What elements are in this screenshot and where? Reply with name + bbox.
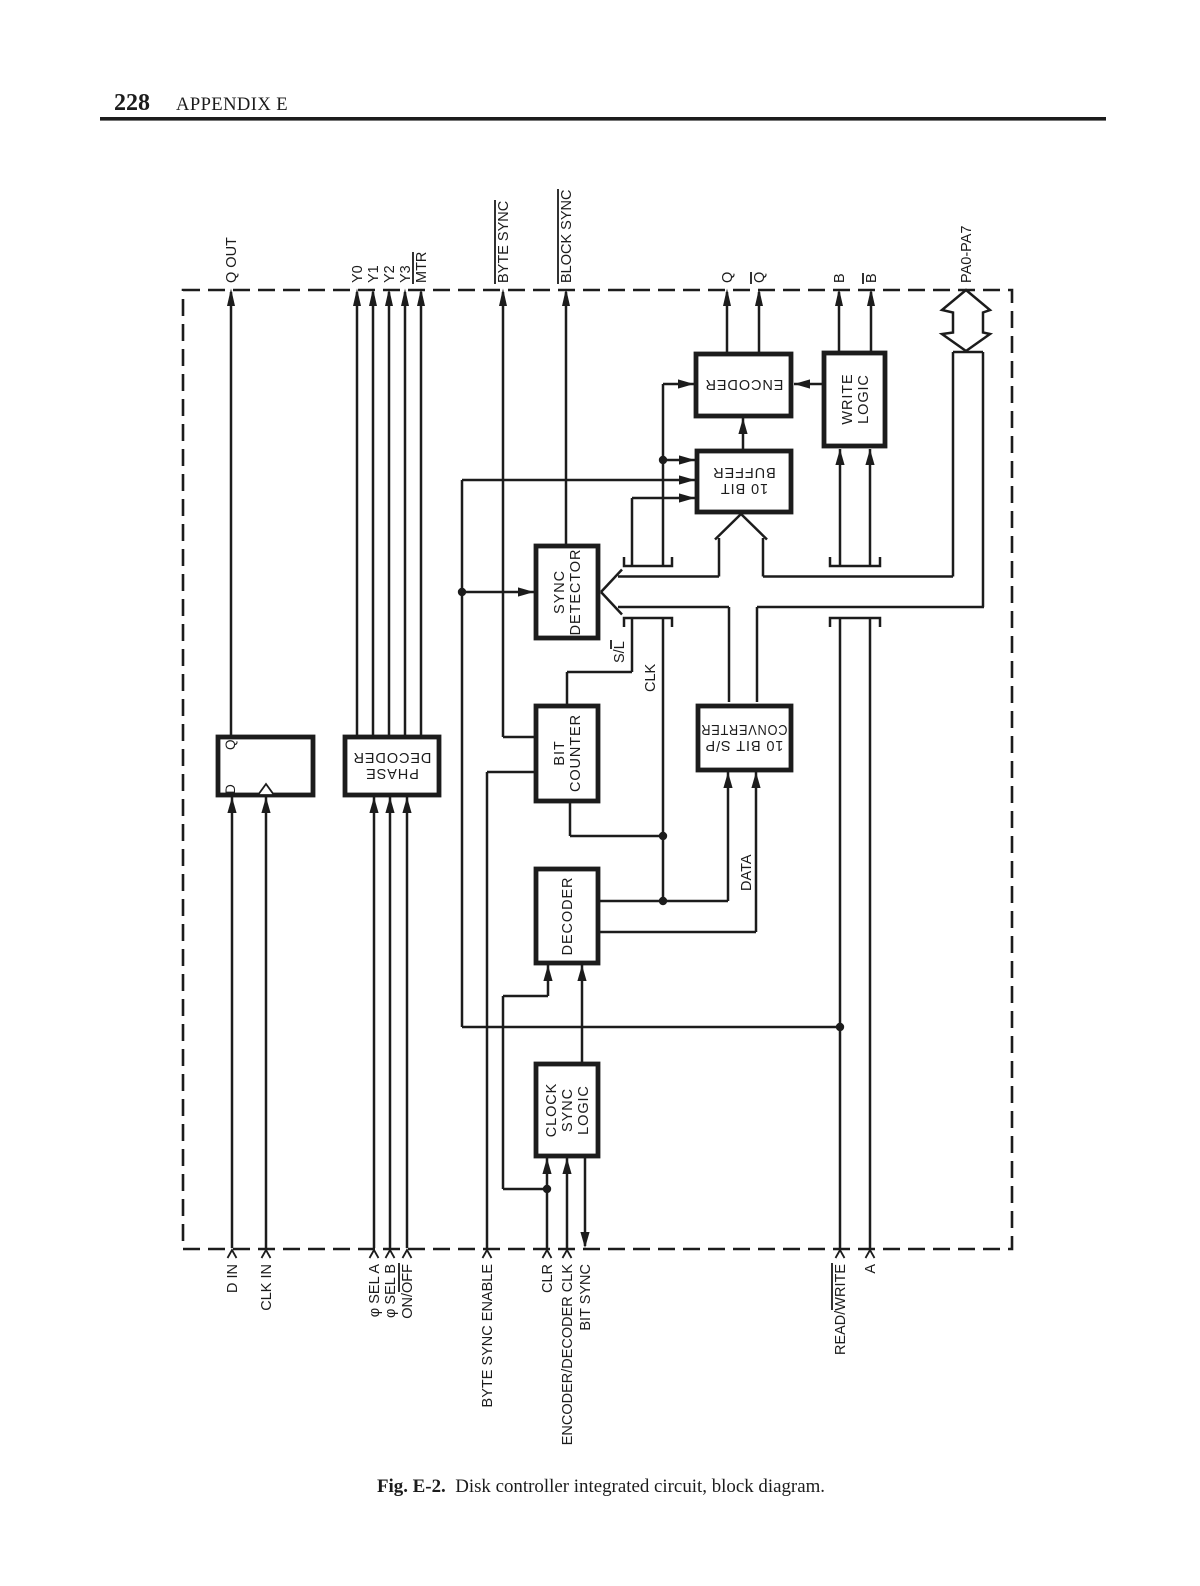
svg-text:PHASE: PHASE [365, 765, 419, 781]
svg-text:Q: Q [720, 272, 736, 283]
svg-text:φ SEL A: φ SEL A [367, 1264, 383, 1318]
svg-text:DECODER: DECODER [353, 749, 432, 765]
svg-text:DECODER: DECODER [560, 877, 576, 956]
svg-text:PA0-PA7: PA0-PA7 [959, 226, 975, 284]
svg-text:BUFFER: BUFFER [712, 464, 775, 480]
svg-text:MTR: MTR [414, 252, 430, 283]
svg-text:D IN: D IN [225, 1264, 241, 1293]
svg-text:CLOCK: CLOCK [544, 1083, 560, 1137]
svg-text:10 BIT S/P: 10 BIT S/P [705, 737, 784, 753]
svg-text:CLK: CLK [643, 663, 659, 692]
svg-text:LOGIC: LOGIC [856, 374, 872, 424]
svg-text:COUNTER: COUNTER [568, 714, 584, 792]
svg-text:B: B [864, 273, 880, 283]
svg-text:SYNC: SYNC [560, 1088, 576, 1132]
svg-text:Q: Q [752, 272, 768, 283]
svg-text:Fig. E-2. Disk controller inte: Fig. E-2. Disk controller integrated cir… [377, 1476, 825, 1497]
svg-text:DETECTOR: DETECTOR [568, 549, 584, 636]
svg-text:APPENDIX E: APPENDIX E [176, 94, 288, 115]
svg-text:228: 228 [114, 90, 150, 116]
svg-text:10 BIT: 10 BIT [720, 480, 768, 496]
svg-text:B: B [832, 273, 848, 283]
svg-text:BYTE SYNC ENABLE: BYTE SYNC ENABLE [480, 1264, 496, 1408]
svg-text:Y3: Y3 [398, 265, 414, 283]
svg-text:ENCODER: ENCODER [705, 376, 784, 392]
svg-text:Y1: Y1 [366, 265, 382, 283]
svg-text:CLK IN: CLK IN [259, 1264, 275, 1311]
svg-text:WRITE: WRITE [840, 373, 856, 424]
svg-text:ON/OFF: ON/OFF [400, 1264, 416, 1319]
svg-text:D: D [223, 784, 238, 794]
svg-text:SYNC: SYNC [552, 570, 568, 614]
svg-text:READ/WRITE: READ/WRITE [833, 1264, 849, 1355]
svg-text:A: A [863, 1264, 879, 1274]
svg-text:Y0: Y0 [350, 265, 366, 283]
svg-text:DATA: DATA [739, 854, 755, 891]
svg-text:Q: Q [223, 739, 238, 750]
svg-text:BIT SYNC: BIT SYNC [578, 1264, 594, 1331]
svg-text:CONVERTER: CONVERTER [701, 721, 788, 737]
svg-text:LOGIC: LOGIC [576, 1085, 592, 1135]
svg-text:BIT: BIT [552, 740, 568, 765]
svg-text:Q OUT: Q OUT [224, 237, 240, 283]
svg-text:CLR: CLR [540, 1264, 556, 1293]
svg-text:ENCODER/DECODER CLK: ENCODER/DECODER CLK [560, 1264, 576, 1446]
svg-text:BYTE SYNC: BYTE SYNC [496, 201, 512, 283]
svg-text:Y2: Y2 [382, 265, 398, 283]
svg-text:S/L: S/L [612, 641, 628, 663]
svg-text:BLOCK SYNC: BLOCK SYNC [559, 190, 575, 283]
svg-text:φ SEL B: φ SEL B [383, 1264, 399, 1318]
